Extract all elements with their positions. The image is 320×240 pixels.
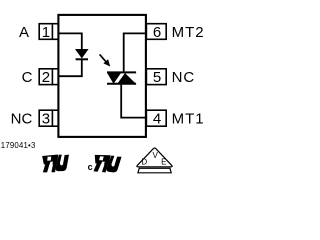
light coupling arrow (100, 54, 111, 66)
svg-text:MT2: MT2 (172, 24, 205, 41)
pin 6 box (146, 24, 166, 40)
svg-text:3: 3 (42, 111, 50, 128)
triac right triangle (points up) (117, 73, 136, 84)
svg-text:NC: NC (11, 111, 33, 128)
svg-text:179041•3: 179041•3 (1, 141, 36, 150)
svg-text:V: V (153, 151, 159, 160)
svg-text:C: C (22, 69, 33, 86)
pin 5 box (146, 69, 166, 85)
svg-text:c: c (88, 162, 93, 172)
triac top bar (MT2 terminal) (107, 71, 136, 73)
pin 4 box (146, 110, 166, 126)
IC body (6-pin DIP outline) (58, 15, 145, 137)
wire pin1 to LED anode (58, 33, 81, 50)
LED cathode bar (76, 58, 88, 60)
svg-text:4: 4 (153, 111, 161, 128)
triac bottom bar (MT1 terminal) (107, 83, 136, 85)
svg-text:A: A (19, 24, 29, 41)
wire triac to pin4 (MT1) (121, 84, 146, 118)
UL recognized component mark (backwards UR) (42, 155, 69, 173)
wire LED cathode to pin2 (58, 59, 81, 76)
LED D1 (emitter diode, anode=pin1 cathode=pin2) (76, 49, 88, 58)
pin 3 box (39, 110, 58, 126)
triac left triangle (points down) (107, 73, 121, 84)
svg-text:5: 5 (153, 69, 161, 86)
svg-text:D: D (141, 158, 147, 167)
wire pin6 (MT2) to triac (124, 33, 146, 72)
cUL recognized component mark (backwards UR) (93, 153, 122, 174)
svg-text:1: 1 (42, 24, 50, 41)
VDE triangle mark (137, 148, 172, 173)
pin 2 box (39, 69, 58, 85)
svg-text:NC: NC (172, 69, 196, 86)
pin 1 box (39, 24, 58, 40)
svg-text:MT1: MT1 (172, 111, 205, 128)
svg-text:E: E (161, 158, 166, 167)
svg-text:2: 2 (42, 69, 50, 86)
svg-text:6: 6 (153, 24, 161, 41)
